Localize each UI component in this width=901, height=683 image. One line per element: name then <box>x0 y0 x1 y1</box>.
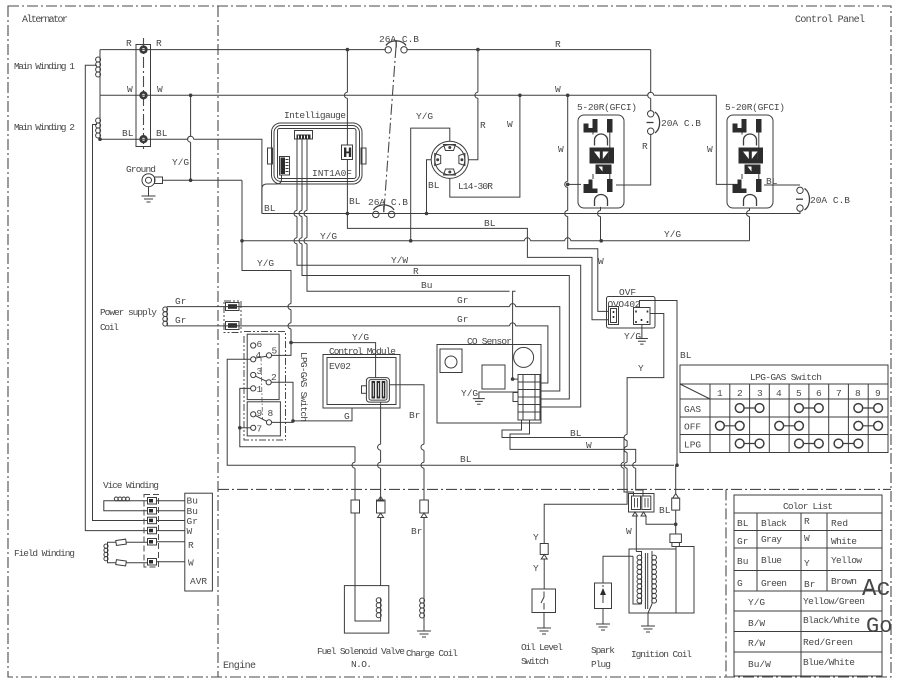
breaker mechanical link dash-dot <box>384 47 396 210</box>
AVR box <box>185 493 213 591</box>
upper switch box <box>247 334 279 399</box>
fuel solenoid right plug <box>377 500 386 513</box>
power supply coil <box>166 307 168 326</box>
svg-text:Gr: Gr <box>457 295 468 306</box>
svg-text:Bu: Bu <box>187 496 198 507</box>
blade 9-8 <box>256 416 267 422</box>
svg-text:Y/G: Y/G <box>257 258 274 269</box>
OVF left connector <box>609 307 619 325</box>
R wire down to 20A CB <box>650 50 652 111</box>
ground symbol below lug <box>142 187 156 202</box>
svg-text:AVR: AVR <box>190 576 207 587</box>
svg-text:Y/G: Y/G <box>172 157 189 168</box>
gauge left connector <box>280 157 290 176</box>
svg-text:R: R <box>156 38 162 49</box>
CO bottom BL wire <box>502 420 634 497</box>
ground wire to Y/G <box>163 179 243 181</box>
svg-text:BL: BL <box>156 128 168 139</box>
L14 contact left <box>435 154 441 166</box>
svg-text:W: W <box>127 84 133 95</box>
terminal R <box>139 45 147 53</box>
svg-text:R: R <box>642 141 648 152</box>
svg-text:Engine: Engine <box>223 660 256 672</box>
svg-text:BL: BL <box>122 128 134 139</box>
gauge right connector H <box>342 145 353 160</box>
svg-text:Green: Green <box>761 578 787 589</box>
svg-text:W: W <box>555 84 561 95</box>
svg-text:Color List: Color List <box>783 501 833 512</box>
svg-text:Ground: Ground <box>126 164 156 175</box>
svg-text:26A C.B: 26A C.B <box>379 34 419 45</box>
module connector <box>366 378 389 403</box>
wire W-to-ground vertical <box>190 95 192 180</box>
svg-text:GAS: GAS <box>684 404 701 415</box>
wire MW2 bottom to BL wire <box>99 138 101 139</box>
fuel solenoid left plug <box>351 500 360 513</box>
contact 2 <box>266 380 271 385</box>
vice winding coil <box>114 500 129 502</box>
contact 1 <box>251 386 256 391</box>
svg-text:R: R <box>480 120 486 131</box>
svg-text:Blue/White: Blue/White <box>803 657 855 668</box>
terminal W <box>139 91 147 99</box>
GFCI1 bottom ground wire down <box>600 207 602 241</box>
BL winding wire <box>100 139 262 213</box>
gauge right connector wire <box>344 50 608 320</box>
svg-text:5-20R(GFCI): 5-20R(GFCI) <box>577 102 637 113</box>
svg-text:BL: BL <box>659 505 671 516</box>
contact 6 <box>251 343 256 348</box>
svg-text:Switch: Switch <box>521 656 549 667</box>
contact2 wire <box>271 382 293 421</box>
blade 4-5 <box>256 356 267 358</box>
svg-text:Y: Y <box>804 558 810 569</box>
svg-text:W: W <box>558 144 564 155</box>
svg-text:Yellow: Yellow <box>831 555 862 566</box>
L14 contact bottom <box>444 169 456 175</box>
W wire down to GFCI1 <box>568 95 609 311</box>
svg-text:LPG: LPG <box>684 440 701 451</box>
lower switch box <box>247 402 280 436</box>
svg-text:BL: BL <box>680 350 692 361</box>
svg-text:6: 6 <box>816 388 822 399</box>
svg-text:4: 4 <box>776 388 782 399</box>
contact7 wire <box>240 427 251 429</box>
wires below connector <box>635 516 637 552</box>
svg-text:Bu: Bu <box>421 280 432 291</box>
svg-text:Plug: Plug <box>591 659 611 670</box>
spark plug box <box>595 583 612 609</box>
svg-text:Fuel Solenoid Valve: Fuel Solenoid Valve <box>317 646 405 657</box>
svg-text:Y: Y <box>638 363 644 374</box>
wire MW1 bottom to W bus <box>99 77 101 95</box>
svg-text:2: 2 <box>271 372 277 383</box>
contact 9 <box>251 412 256 417</box>
terminal strip <box>136 45 151 147</box>
svg-text:BL: BL <box>766 176 778 187</box>
OVF ground <box>636 325 648 345</box>
link dash-dot vertical <box>261 357 263 419</box>
svg-text:Br: Br <box>411 526 422 537</box>
svg-text:Y/G: Y/G <box>352 332 369 343</box>
color list section divider <box>725 489 727 677</box>
module G bottom wire / solenoid wire <box>380 402 382 500</box>
svg-text:BL: BL <box>428 180 440 191</box>
fuel solenoid coil <box>380 598 382 618</box>
svg-text:Gr: Gr <box>175 296 186 307</box>
section divider alternator/control panel <box>217 6 219 677</box>
power supply connector <box>224 301 241 333</box>
svg-text:Br: Br <box>804 579 815 590</box>
svg-text:Y/G: Y/G <box>461 388 478 399</box>
svg-text:Coil: Coil <box>100 322 119 333</box>
svg-text:5-20R(GFCI): 5-20R(GFCI) <box>725 102 785 113</box>
ignition coil body <box>629 549 676 613</box>
primary coil left <box>641 555 643 604</box>
charge coil ground <box>417 618 431 637</box>
svg-text:L14-30R: L14-30R <box>458 181 493 192</box>
fuel solenoid valve box <box>344 586 388 634</box>
secondary tall box <box>676 547 694 614</box>
gauge pin wire A to Y/W <box>297 139 581 407</box>
wire MW2 top to W bus <box>99 95 101 118</box>
svg-text:Y: Y <box>533 563 539 574</box>
gauge top connector <box>295 131 313 140</box>
svg-text:Black/White: Black/White <box>803 615 860 626</box>
L14 contact right <box>459 154 465 166</box>
svg-text:Gray: Gray <box>761 534 782 545</box>
secondary cap <box>670 534 682 543</box>
svg-text:Red: Red <box>831 518 848 529</box>
svg-text:W: W <box>626 526 632 537</box>
svg-text:1: 1 <box>717 388 723 399</box>
svg-text:BL: BL <box>570 428 582 439</box>
W wire to GFCI2 <box>716 95 738 184</box>
wire MW1 top to R bus <box>99 50 101 57</box>
svg-text:W: W <box>804 533 810 544</box>
svg-text:INT1A0F: INT1A0F <box>312 168 352 179</box>
L14 contact top <box>444 145 456 151</box>
terminal BL <box>139 135 147 143</box>
gauge pin wire B to R <box>302 139 569 399</box>
svg-text:Gr: Gr <box>457 314 468 325</box>
svg-text:R: R <box>126 38 132 49</box>
Y/G main bus <box>242 240 750 242</box>
gauge pin wire C to Bu <box>307 139 518 379</box>
CO bottom W wire <box>510 420 643 497</box>
Y/G vertical from ground <box>242 180 291 355</box>
svg-text:Main Winding 1: Main Winding 1 <box>14 61 75 72</box>
svg-text:R: R <box>804 516 810 527</box>
svg-text:8: 8 <box>268 408 274 419</box>
transformer core <box>645 553 647 609</box>
svg-text:N.O.: N.O. <box>351 659 372 670</box>
wire MW2 left tap <box>93 125 148 521</box>
svg-text:6: 6 <box>257 339 263 350</box>
svg-text:W: W <box>187 526 193 537</box>
svg-text:4: 4 <box>256 350 262 361</box>
svg-text:20A C.B: 20A C.B <box>661 118 701 129</box>
svg-text:W: W <box>157 84 163 95</box>
gauge body <box>272 123 363 184</box>
oil level switch ground <box>537 613 551 635</box>
main winding 2 coil <box>99 118 101 138</box>
field winding coil <box>107 544 109 560</box>
svg-text:BL: BL <box>264 203 276 214</box>
svg-text:Gr: Gr <box>737 536 748 547</box>
svg-text:Y: Y <box>533 532 539 543</box>
svg-text:20A C.B: 20A C.B <box>810 195 850 206</box>
AVR connector strip <box>144 495 159 568</box>
switch outer dash-dot box <box>244 332 286 441</box>
svg-text:9: 9 <box>875 388 881 399</box>
charge coil plug <box>420 500 429 513</box>
ignition coil connector box <box>629 494 655 513</box>
svg-text:Charge Coil: Charge Coil <box>406 648 458 659</box>
svg-text:BL: BL <box>484 218 496 229</box>
contact 7 <box>251 425 256 430</box>
CO big circle <box>514 347 534 367</box>
svg-text:7: 7 <box>257 424 263 435</box>
svg-text:Y/G: Y/G <box>320 231 337 242</box>
contact 8 <box>266 420 271 425</box>
contact 3 <box>251 372 256 377</box>
Gr bus 2 <box>167 326 548 383</box>
GFCI2 right contact to 20A CB <box>764 184 800 186</box>
svg-text:Field Winding: Field Winding <box>14 548 75 559</box>
svg-text:Power supply: Power supply <box>100 307 157 318</box>
svg-text:W: W <box>707 144 713 155</box>
svg-text:Control Module: Control Module <box>329 346 396 357</box>
svg-text:Bu: Bu <box>737 556 748 567</box>
GFCI2 bottom ground wire down <box>749 208 751 241</box>
svg-text:Ignition Coil: Ignition Coil <box>631 649 692 660</box>
svg-text:Y/W: Y/W <box>391 255 408 266</box>
svg-text:Control Panel: Control Panel <box>795 14 865 26</box>
oil level switch box <box>532 589 556 613</box>
spark plug wire to ignition coil <box>603 556 633 583</box>
R bus wire top <box>100 49 651 51</box>
wire MW1 left tap <box>85 65 147 530</box>
gauge left connector wire to BL bus <box>262 175 282 214</box>
svg-text:W: W <box>507 119 513 130</box>
primary coil right <box>651 555 653 604</box>
svg-text:Ac: Ac <box>862 576 891 603</box>
svg-text:B/W: B/W <box>748 618 765 629</box>
contact 5 <box>266 353 271 358</box>
svg-text:Vice Winding: Vice Winding <box>103 480 159 491</box>
svg-text:G: G <box>737 578 743 589</box>
contact1 wire <box>240 388 355 446</box>
svg-text:Gr: Gr <box>175 315 186 326</box>
svg-text:Intelligauge: Intelligauge <box>284 110 346 121</box>
fuel solenoid left wire down <box>354 447 356 500</box>
svg-text:BL: BL <box>349 196 361 207</box>
L14-30R receptacle <box>431 141 468 178</box>
svg-text:5: 5 <box>272 346 278 357</box>
svg-text:Blue: Blue <box>761 555 782 566</box>
svg-text:Y/G: Y/G <box>748 597 765 608</box>
svg-text:W: W <box>598 256 604 267</box>
main winding 1 coil <box>99 57 101 77</box>
contact 4 <box>251 357 256 362</box>
svg-text:W: W <box>586 440 592 451</box>
blade 3-2 <box>256 376 267 381</box>
svg-text:Brown: Brown <box>831 576 857 587</box>
svg-text:Alternator: Alternator <box>22 14 68 26</box>
Y/G bus 2 to control module <box>291 343 376 378</box>
20A C.B breaker GFCI1 <box>648 111 654 117</box>
W bus wire <box>100 92 716 95</box>
svg-text:Go: Go <box>866 614 892 639</box>
contact5 wire to Y/G bus2 <box>272 343 291 356</box>
20A C.B breaker right <box>797 187 803 193</box>
svg-text:LPG-GAS Switch: LPG-GAS Switch <box>750 372 822 383</box>
OVF top wire to BL vertical <box>640 301 678 466</box>
svg-text:LPG-GAS Switch: LPG-GAS Switch <box>298 352 309 422</box>
module Br wire <box>389 385 424 500</box>
svg-text:EV02: EV02 <box>329 361 351 372</box>
svg-text:Main Winding 2: Main Winding 2 <box>14 122 75 133</box>
svg-text:26A C.B: 26A C.B <box>368 197 408 208</box>
svg-text:BL: BL <box>460 454 472 465</box>
svg-text:8: 8 <box>855 388 861 399</box>
svg-text:Br: Br <box>409 410 420 421</box>
CO medium square <box>482 365 505 389</box>
ground lug <box>142 174 155 187</box>
svg-text:R: R <box>555 39 561 50</box>
svg-text:2: 2 <box>737 388 743 399</box>
svg-text:Y/G: Y/G <box>416 111 433 122</box>
svg-text:CO Sensor: CO Sensor <box>467 336 512 347</box>
svg-text:W: W <box>188 558 194 569</box>
svg-text:G: G <box>344 411 350 422</box>
field winding connectors <box>108 542 148 563</box>
svg-text:White: White <box>831 536 857 547</box>
svg-text:R/W: R/W <box>748 638 765 649</box>
svg-text:OFF: OFF <box>684 422 701 433</box>
contact4 wire to BL lower bus <box>227 359 674 465</box>
charge coil <box>423 598 425 618</box>
BL wire from right CB to BL bus <box>262 211 800 213</box>
svg-text:BL: BL <box>737 518 749 529</box>
R wire CB to GFCI1 bottom right contact <box>616 134 651 185</box>
svg-text:3: 3 <box>757 388 763 399</box>
svg-text:Black: Black <box>761 518 787 529</box>
svg-text:Red/Green: Red/Green <box>803 637 853 648</box>
svg-text:5: 5 <box>796 388 802 399</box>
svg-text:Bu/W: Bu/W <box>748 659 771 670</box>
wires connector to AVR <box>157 501 185 562</box>
svg-text:Yellow/Green: Yellow/Green <box>803 596 865 607</box>
svg-text:Y/G: Y/G <box>664 229 681 240</box>
Gr bus 1 <box>167 307 560 391</box>
svg-text:Y/G: Y/G <box>624 331 641 342</box>
CO connector <box>518 375 540 421</box>
svg-text:7: 7 <box>836 388 842 399</box>
svg-text:R: R <box>413 266 419 277</box>
spark plug ground <box>596 609 610 631</box>
OVF right connector <box>634 308 651 325</box>
vice coil wiring loop <box>104 501 148 511</box>
engine section top boundary <box>218 488 891 490</box>
svg-text:Spark: Spark <box>591 645 615 656</box>
svg-text:R: R <box>188 540 194 551</box>
ignition coil ground <box>641 613 655 632</box>
OVF Y wire to oil level switch <box>544 314 664 544</box>
CO small square with circle <box>440 349 462 373</box>
contact8 wire <box>272 408 352 422</box>
svg-text:Oil Level: Oil Level <box>521 642 563 653</box>
